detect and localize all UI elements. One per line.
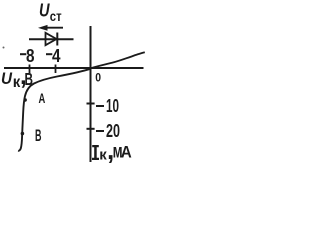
arrow Uct (points left) (38, 25, 63, 31)
svg-text:U: U (39, 1, 50, 21)
svg-text:4: 4 (52, 46, 61, 66)
label -10 (96, 96, 119, 116)
label Uk,V (x-axis) (1, 63, 33, 91)
svg-text:ст: ст (50, 8, 62, 24)
label -4 (46, 46, 61, 66)
tick -20 (87, 128, 95, 130)
diode VD (zener) (29, 33, 74, 46)
svg-text:А: А (121, 143, 132, 162)
curve: forward branch (91, 52, 145, 68)
x-axis (4, 67, 144, 69)
y-axis (90, 26, 92, 162)
curve: reverse branch with breakdown (18, 69, 90, 151)
svg-text:A: A (39, 90, 46, 106)
label Ik,mA (y-axis) (92, 135, 132, 165)
tick -10 (87, 103, 95, 105)
svg-text:8: 8 (26, 46, 35, 66)
tick -8 (29, 65, 31, 74)
svg-text:10: 10 (106, 96, 119, 116)
label -20 (96, 121, 120, 141)
svg-text:U: U (1, 69, 13, 88)
svg-text:0: 0 (95, 71, 101, 85)
tick -4 (55, 65, 57, 74)
stray scan dot (3, 47, 5, 49)
svg-text:B: B (35, 127, 42, 145)
label Uct (39, 1, 62, 25)
point A dot (24, 98, 27, 101)
point B dot (21, 132, 25, 136)
label -8 (20, 46, 35, 66)
